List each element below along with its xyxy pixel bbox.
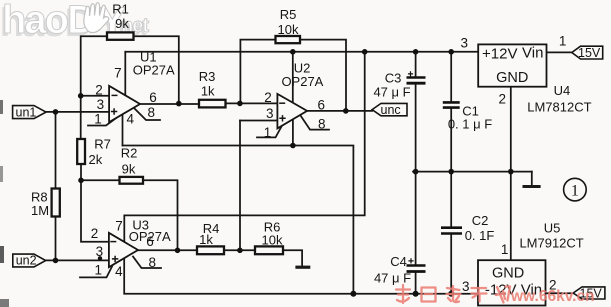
svg-text:1: 1 xyxy=(94,112,102,127)
svg-text:un1: un1 xyxy=(16,105,37,119)
svg-text:7: 7 xyxy=(114,65,122,80)
svg-text:2: 2 xyxy=(499,91,507,106)
svg-text:C2: C2 xyxy=(472,213,489,228)
svg-text:Vin: Vin xyxy=(522,45,543,62)
svg-text:R2: R2 xyxy=(121,146,138,161)
svg-text:8: 8 xyxy=(147,105,155,120)
svg-text:3: 3 xyxy=(97,97,105,112)
svg-text:OP27A: OP27A xyxy=(281,74,323,89)
svg-text:GND: GND xyxy=(496,70,528,86)
svg-text:+12V: +12V xyxy=(482,46,517,63)
svg-text:4: 4 xyxy=(126,111,134,126)
svg-text:2: 2 xyxy=(91,226,99,241)
svg-text:1: 1 xyxy=(501,242,509,257)
svg-text:6: 6 xyxy=(318,97,326,112)
svg-text:8: 8 xyxy=(318,117,326,132)
svg-text:U5: U5 xyxy=(544,220,561,235)
svg-text:3: 3 xyxy=(266,106,274,121)
svg-text:47 μ F: 47 μ F xyxy=(374,270,411,285)
svg-text:C3: C3 xyxy=(385,70,402,85)
svg-text:R5: R5 xyxy=(280,7,297,22)
svg-text:un2: un2 xyxy=(16,254,37,268)
svg-text:4: 4 xyxy=(115,264,123,279)
svg-text:2: 2 xyxy=(95,83,103,98)
svg-text:15V: 15V xyxy=(578,46,601,60)
svg-text:2k: 2k xyxy=(89,152,103,167)
svg-text:6: 6 xyxy=(149,90,157,105)
svg-text:6: 6 xyxy=(146,234,154,249)
svg-text:LM7912CT: LM7912CT xyxy=(519,235,583,250)
svg-text:1: 1 xyxy=(264,125,272,140)
svg-text:U4: U4 xyxy=(554,83,571,98)
svg-text:0. 1 μ F: 0. 1 μ F xyxy=(448,117,492,132)
svg-text:OP27A: OP27A xyxy=(133,63,175,78)
svg-text:ww.66kv.cn: ww.66kv.cn xyxy=(510,288,595,305)
svg-text:3: 3 xyxy=(462,279,470,294)
svg-text:7: 7 xyxy=(115,218,123,233)
svg-text:LM7812CT: LM7812CT xyxy=(527,99,591,114)
svg-text:0. 1F: 0. 1F xyxy=(465,228,495,243)
svg-text:unc: unc xyxy=(381,103,401,117)
svg-text:3: 3 xyxy=(96,244,104,259)
svg-text:2: 2 xyxy=(264,90,272,105)
svg-text:1: 1 xyxy=(559,34,567,49)
svg-text:10k: 10k xyxy=(278,22,299,37)
svg-text:9k: 9k xyxy=(122,162,136,177)
svg-text:10k: 10k xyxy=(262,232,283,247)
svg-text:R1: R1 xyxy=(112,2,129,17)
svg-text:47 μ F: 47 μ F xyxy=(373,84,410,99)
svg-text:R3: R3 xyxy=(199,69,216,84)
svg-text:3: 3 xyxy=(460,35,468,50)
svg-text:1: 1 xyxy=(94,262,102,277)
svg-text:1k: 1k xyxy=(201,84,215,99)
svg-text:8: 8 xyxy=(149,255,157,270)
svg-text:9k: 9k xyxy=(115,16,129,31)
svg-text:1k: 1k xyxy=(199,232,213,247)
svg-text:R7: R7 xyxy=(94,137,111,152)
svg-text:1M: 1M xyxy=(31,203,49,218)
svg-text:1: 1 xyxy=(571,182,579,199)
svg-text:C4: C4 xyxy=(390,254,407,269)
svg-text:GND: GND xyxy=(492,265,524,281)
